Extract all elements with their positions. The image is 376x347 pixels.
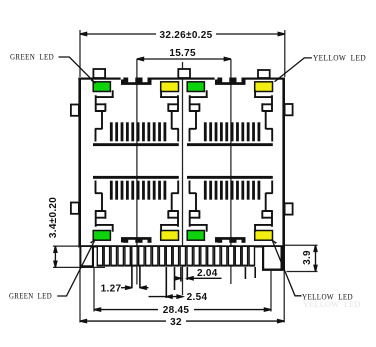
pin ext 1.27 right: [139, 250, 141, 288]
pin ext 2.54 left: [165, 267, 167, 298]
ext 32.26 right: [284, 30, 286, 77]
pin 19: [221, 247, 228, 267]
dim 3.4 line: [54, 246, 56, 267]
dim 15.75 line: [137, 58, 231, 60]
ext 3.4 top: [53, 245, 81, 247]
top tab left: [93, 69, 105, 78]
right wide leg: [262, 247, 285, 271]
dim 32 line: [80, 320, 284, 322]
top edge band: [78, 78, 285, 80]
ext 3.9 bottom: [287, 271, 318, 273]
port 2 top-right: [187, 77, 273, 146]
port 1 top-left: [93, 77, 179, 146]
ext 32.26 left: [79, 30, 81, 77]
top tab center: [178, 69, 190, 78]
leader green bottom-left: [57, 239, 95, 296]
pin ext 2.04 left: [180, 267, 182, 282]
pin long a: [174, 267, 176, 290]
port 3 bottom-left (mirrored): [93, 176, 179, 245]
ext 3.4 bottom: [53, 266, 105, 268]
svg-text:32.26±0.25: 32.26±0.25: [160, 30, 213, 41]
pin 21: [235, 247, 242, 267]
pin 20: [228, 247, 235, 267]
svg-text:2.04: 2.04: [197, 268, 218, 279]
body centerline: [182, 62, 184, 295]
svg-text:15.75: 15.75: [169, 48, 196, 59]
pin 7: [138, 247, 145, 267]
ext 32 left (down): [79, 248, 81, 323]
svg-text:GREEN LED: GREEN LED: [9, 292, 52, 301]
ext 32 right (down): [283, 271, 285, 323]
pin 12: [173, 247, 180, 267]
pin 18: [214, 247, 221, 267]
dim 32.26±0.25 line: [80, 33, 285, 35]
centerline port 2: [230, 59, 232, 284]
svg-text:YELLOW LED: YELLOW LED: [313, 54, 366, 63]
svg-text:2.54: 2.54: [187, 292, 208, 303]
pin 1: [97, 247, 104, 267]
pin 3: [110, 247, 117, 267]
text 2.54: [185, 291, 211, 302]
pin ext 1.27 left: [131, 250, 133, 288]
pin 6: [131, 247, 138, 267]
svg-text:YELLOW LED: YELLOW LED: [303, 300, 361, 309]
side tab right upper: [285, 104, 293, 115]
pin 4: [117, 247, 124, 267]
ext 3.9 top: [285, 244, 318, 246]
leader green top-left: [59, 57, 96, 83]
pin 13: [179, 247, 186, 267]
bottom edge band: [78, 245, 285, 247]
side tab left upper: [71, 105, 79, 116]
pin ext 2.04 right: [186, 267, 188, 280]
pin 8: [145, 247, 152, 267]
svg-text:3.4±0.20: 3.4±0.20: [48, 197, 59, 238]
port 4 bottom-right (mirrored): [187, 176, 273, 245]
svg-text:1.27: 1.27: [101, 284, 122, 295]
svg-text:3.9: 3.9: [302, 250, 313, 265]
side tab left lower: [71, 203, 79, 214]
text 1.27: [101, 283, 121, 294]
pin below port2 a: [244, 267, 246, 279]
pin 22: [242, 247, 249, 267]
pin 15: [193, 247, 200, 267]
ext 28.45 left: [93, 268, 95, 312]
pin below port2 b: [254, 267, 256, 278]
text 32.26±0.25: [156, 29, 216, 42]
pin 5: [124, 247, 131, 267]
dim 2.04 lines: [175, 277, 181, 279]
right edge band: [282, 78, 285, 248]
svg-text:GREEN LED: GREEN LED: [10, 53, 54, 62]
svg-text:28.45: 28.45: [163, 305, 190, 316]
top tab right: [258, 70, 270, 78]
dim 3.9 line: [315, 245, 317, 271]
dim 2.54 lines: [149, 296, 183, 298]
text 28.45: [158, 304, 194, 316]
left wide leg: [80, 247, 95, 268]
dim 28.45 line: [94, 309, 271, 311]
pin 17: [207, 247, 214, 267]
svg-text:32: 32: [170, 317, 182, 328]
text 32: [166, 316, 186, 328]
leader yellow top-right: [275, 58, 312, 82]
ext 28.45 right: [270, 271, 272, 312]
pin 14: [186, 247, 193, 267]
pin 23: [248, 247, 255, 267]
pin 16: [200, 247, 207, 267]
left edge band: [78, 78, 81, 248]
leader yellow bottom-right: [272, 239, 302, 295]
centerline port 1: [136, 59, 138, 285]
pin 10: [159, 247, 166, 267]
side tab right lower: [285, 203, 293, 214]
pin 9: [152, 247, 159, 267]
pin 11: [166, 247, 173, 267]
dim 1.27 lines: [121, 287, 131, 289]
pin 2: [104, 247, 111, 267]
